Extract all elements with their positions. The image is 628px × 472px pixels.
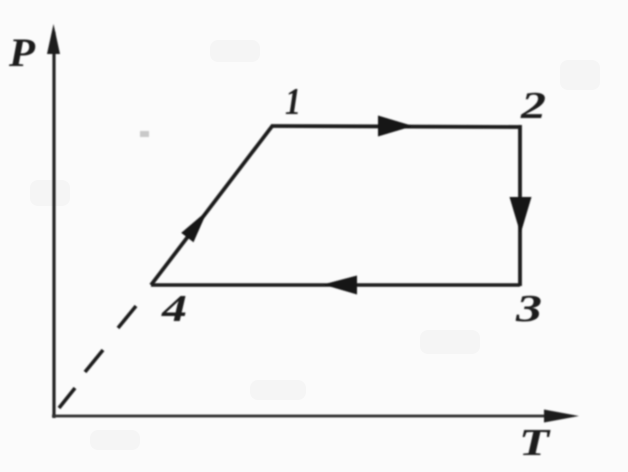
svg-text:T: T	[519, 422, 551, 464]
wire segment 2-3 (right vertical)	[518, 125, 522, 286]
faint scan smudge	[140, 131, 149, 137]
arrow on 2-3 pointing down	[510, 197, 532, 234]
svg-text:2: 2	[520, 85, 546, 127]
P axis (vertical)	[52, 32, 55, 418]
svg-text:1: 1	[285, 81, 301, 123]
wire segment 1-2 (isobar top)	[272, 126, 520, 127]
wire segment 4-1 (diagonal isochore)	[151, 125, 273, 285]
P axis arrowhead	[47, 24, 60, 54]
svg-text:4: 4	[161, 288, 187, 330]
dash b	[85, 350, 103, 372]
wire segment 3-4 (isobar bottom)	[151, 283, 520, 286]
svg-text:3: 3	[515, 288, 542, 330]
dashed extension of 4-1 toward origin, dash a	[59, 388, 75, 408]
dash c	[118, 306, 136, 328]
arrow on 4-1 pointing up-right	[181, 211, 207, 243]
svg-text:P: P	[8, 30, 36, 75]
T axis (horizontal)	[52, 415, 548, 418]
arrow on 3-4 pointing left	[323, 276, 357, 295]
T axis arrowhead	[544, 410, 579, 423]
arrow on 1-2 pointing right	[378, 116, 413, 137]
